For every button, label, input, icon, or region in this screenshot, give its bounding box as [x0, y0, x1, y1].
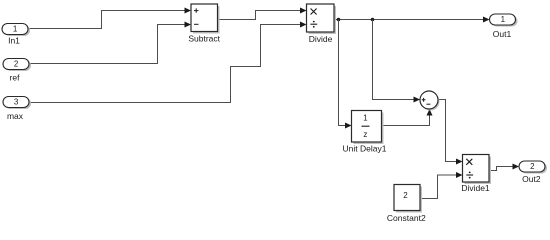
sum block: [420, 91, 440, 111]
svg-text:1: 1: [13, 25, 18, 34]
svg-text:2: 2: [14, 60, 19, 69]
svg-text:Out1: Out1: [493, 29, 512, 39]
outport Out1: [490, 14, 518, 39]
wire Divide output to Out1: [334, 17, 490, 23]
svg-text:3: 3: [14, 98, 19, 107]
wire Divide1 output to Out2: [489, 164, 519, 171]
block Constant2: [387, 185, 426, 223]
junction dot A on Divide output: [337, 18, 341, 22]
outport Out2: [519, 161, 547, 184]
junction dot B on Divide output: [371, 18, 375, 22]
inport In1: [2, 24, 30, 46]
block Divide1: [461, 155, 491, 193]
wire branch from junction A down to Unit Delay1 input: [339, 20, 352, 129]
svg-text:In1: In1: [8, 36, 20, 46]
wire Sum output to Divide1 top input: [438, 100, 463, 165]
svg-text:1: 1: [501, 15, 506, 24]
block Unit Delay1: [343, 111, 387, 154]
wire Constant2 output to Divide1 bottom input: [420, 172, 463, 199]
wire Unit Delay1 output to Sum bottom input: [382, 109, 433, 126]
wire Subtract output to Divide top input: [218, 8, 307, 20]
wire ref to Subtract minus input: [29, 22, 191, 64]
wire max to Divide bottom input: [29, 22, 307, 103]
svg-text:Constant2: Constant2: [387, 213, 426, 223]
block Subtract: [188, 4, 220, 43]
svg-text:2: 2: [530, 162, 535, 171]
svg-text:Divide1: Divide1: [461, 183, 490, 193]
svg-text:Subtract: Subtract: [188, 33, 220, 43]
inport max: [3, 97, 31, 122]
svg-text:1: 1: [363, 114, 368, 123]
wire In1 to Subtract plus input: [28, 8, 191, 29]
inport ref: [3, 59, 31, 83]
svg-text:2: 2: [403, 191, 408, 200]
svg-text:ref: ref: [10, 72, 21, 82]
svg-text:max: max: [7, 111, 24, 121]
svg-text:Divide: Divide: [309, 34, 333, 44]
wire branch from junction B down to Sum left input: [373, 20, 421, 103]
svg-text:z: z: [363, 130, 367, 139]
svg-text:Unit Delay1: Unit Delay1: [343, 144, 387, 154]
block Divide: [307, 4, 337, 44]
svg-text:Out2: Out2: [522, 174, 541, 184]
